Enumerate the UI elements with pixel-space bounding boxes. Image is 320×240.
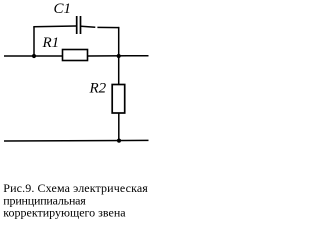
svg-text:R2: R2 (89, 81, 107, 97)
svg-text:корректирующего звена: корректирующего звена (3, 206, 126, 220)
svg-text:R1: R1 (42, 35, 60, 51)
svg-text:C1: C1 (54, 1, 72, 17)
